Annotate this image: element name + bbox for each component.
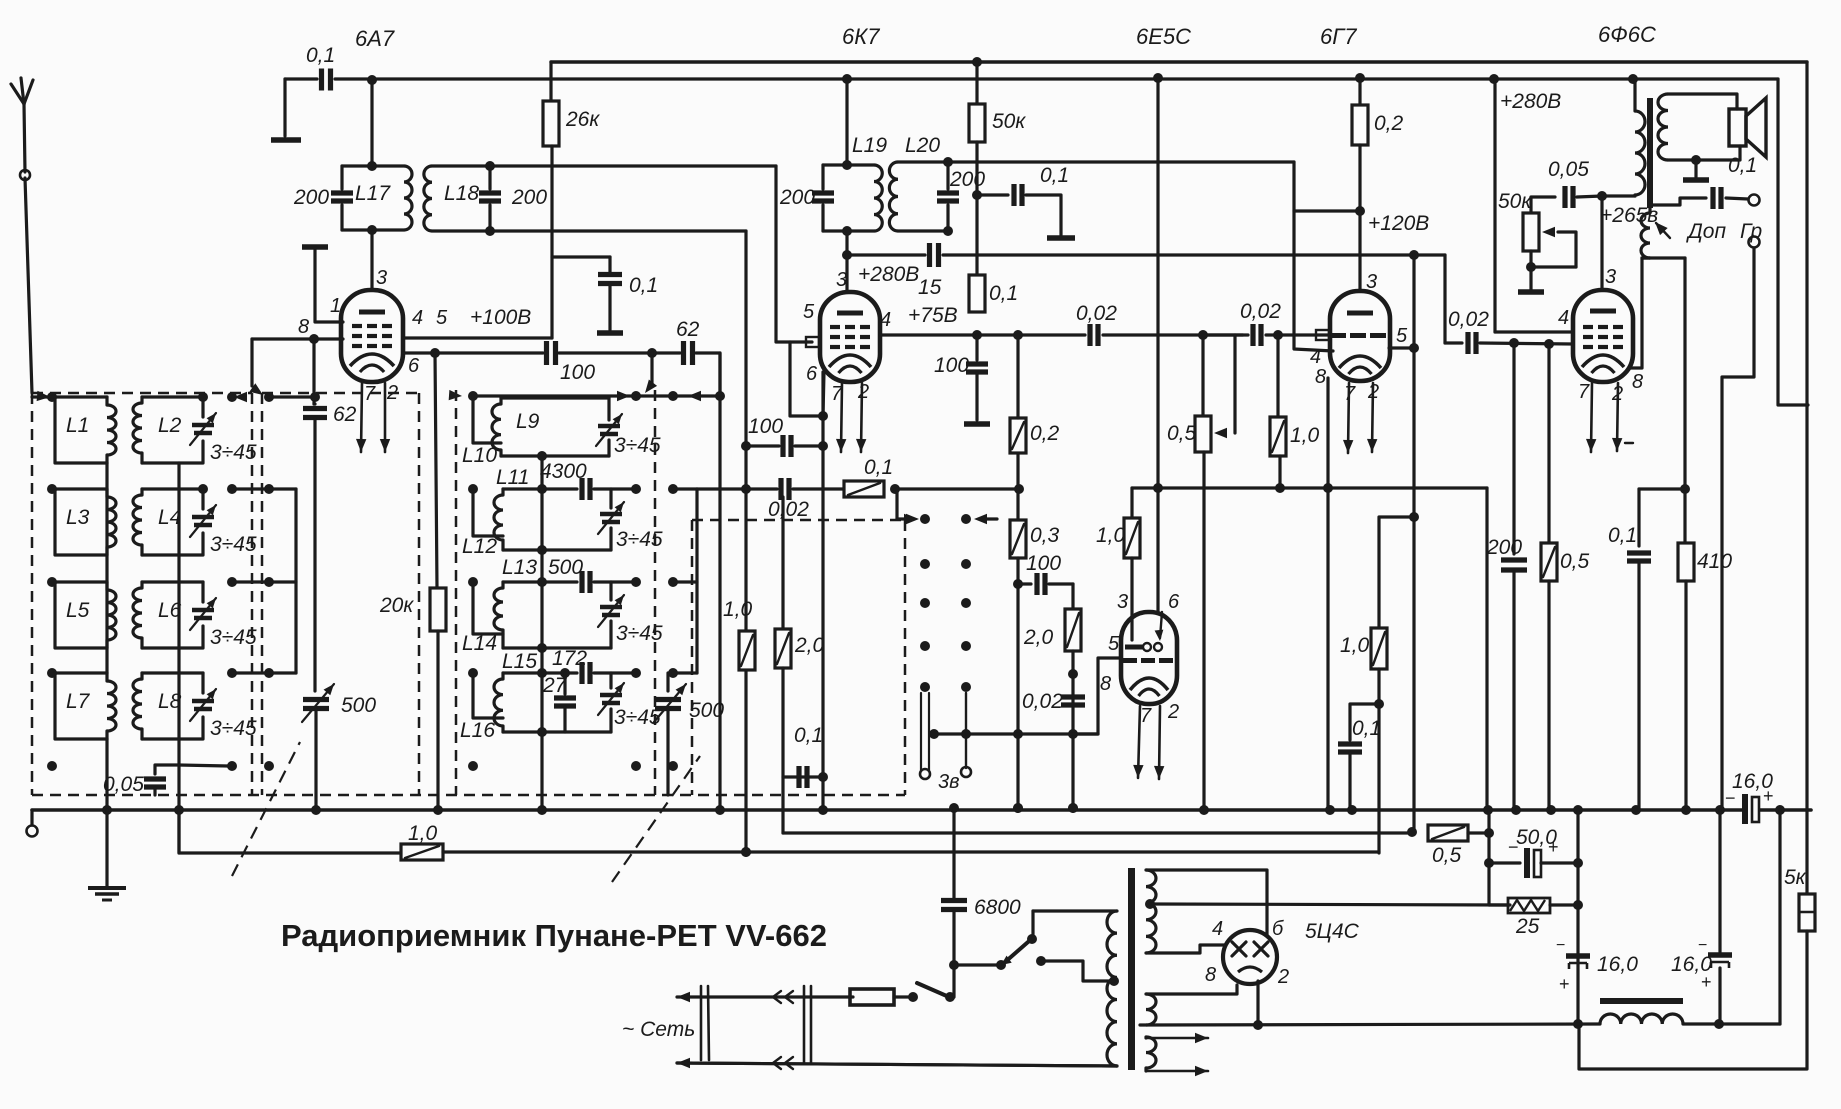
- svg-text:3÷45: 3÷45: [210, 717, 257, 740]
- svg-text:3: 3: [1117, 591, 1128, 613]
- svg-text:+100В: +100В: [470, 306, 531, 329]
- switch contacts row5 left: [47, 761, 57, 771]
- wire osc grid drop: [650, 353, 653, 384]
- wire: +280V top bus: [551, 60, 1807, 63]
- wire: right coil column link: [177, 463, 180, 765]
- wire bracket to AVC line: [697, 487, 746, 490]
- svg-text:0,02: 0,02: [1076, 302, 1117, 325]
- svg-text:6Е5С: 6Е5С: [1136, 24, 1191, 49]
- ground bar speaker: [1694, 160, 1697, 177]
- wire pin6 junction down (osc grid leak): [435, 353, 437, 588]
- additional speaker winding: [1641, 213, 1650, 258]
- wire 62 cap to L9 column: [696, 353, 720, 395]
- svg-text:0,05: 0,05: [103, 773, 144, 796]
- svg-text:0,02: 0,02: [768, 498, 809, 521]
- svg-text:500: 500: [689, 699, 724, 722]
- inductor L5: [55, 580, 107, 583]
- wire row1 corner down to bus: [718, 353, 721, 810]
- capacitor 100 6E5C grid: [1018, 582, 1031, 585]
- heater arrows 6K7: [841, 383, 842, 452]
- resistor 25 wirewound: [1508, 898, 1550, 913]
- svg-text:4: 4: [1310, 346, 1321, 368]
- resistor 1.0 middle: [739, 631, 755, 670]
- switch contacts row4 left: [47, 668, 57, 678]
- inductor L17: [342, 164, 404, 167]
- svg-text:100: 100: [934, 354, 969, 377]
- dashed box 4: switch section: [691, 520, 694, 795]
- svg-text:L16: L16: [460, 719, 495, 742]
- rectifier filament winding: [1146, 994, 1156, 1025]
- wire 0.5 pot to bus: [1202, 452, 1205, 810]
- svg-text:0,02: 0,02: [1448, 308, 1489, 331]
- wire 2.0 chain: [1071, 584, 1074, 609]
- inductor L2 with trimmer 3-45: [142, 395, 203, 398]
- svg-text:0,1: 0,1: [1352, 717, 1381, 740]
- svg-text:L14: L14: [462, 632, 497, 655]
- right border bottom: [1579, 931, 1807, 1069]
- tube 6A7: [341, 290, 403, 382]
- bracket right switch common: [673, 487, 697, 490]
- wire pin3 6F6C anode: [1600, 196, 1603, 290]
- svg-text:0,2: 0,2: [1374, 112, 1404, 135]
- svg-text:0,5: 0,5: [1167, 422, 1197, 445]
- svg-text:50к: 50к: [992, 110, 1026, 133]
- wire 20k to bus: [436, 631, 439, 810]
- resistor 1.0 6E5C: [1124, 518, 1140, 558]
- svg-text:−: −: [1698, 937, 1707, 954]
- svg-text:L18: L18: [444, 182, 479, 205]
- capacitor 100 cathode 6K7: [975, 335, 978, 360]
- svg-text:0,02: 0,02: [1022, 690, 1063, 713]
- wire 50k down: [975, 142, 978, 275]
- HV top lead to rectifier: [1146, 870, 1267, 936]
- resistor 5k: [1799, 894, 1815, 931]
- resistor 26k: [549, 62, 552, 101]
- svg-text:+280В: +280В: [858, 263, 919, 286]
- wire pin6 output: [403, 351, 543, 354]
- svg-text:L3: L3: [66, 506, 90, 529]
- svg-text:3: 3: [1605, 266, 1616, 288]
- wire to 0.5 pot corner: [1198, 330, 1208, 340]
- svg-text:+120В: +120В: [1368, 212, 1429, 235]
- wire 62 cap to variable 500: [313, 418, 316, 691]
- wire L19 bottom to 6K7 anode: [845, 231, 848, 255]
- primary bottom lead: [677, 1063, 1117, 1066]
- wire branch to 0.1 decoupling cap: [552, 255, 610, 258]
- wire pin4 6F6C: [1495, 330, 1573, 333]
- wire L9 common column: [540, 456, 543, 810]
- primary tap lead: [1109, 976, 1119, 986]
- svg-text:1: 1: [330, 295, 341, 317]
- svg-text:0,1: 0,1: [989, 282, 1018, 305]
- svg-text:6: 6: [1168, 591, 1180, 613]
- svg-text:+280В: +280В: [1500, 90, 1561, 113]
- svg-text:200: 200: [1486, 536, 1522, 559]
- svg-text:5: 5: [1396, 325, 1408, 347]
- svg-text:+: +: [1559, 974, 1570, 994]
- svg-text:0,05: 0,05: [1548, 158, 1589, 181]
- svg-text:3÷45: 3÷45: [210, 533, 257, 556]
- svg-text:50,0: 50,0: [1516, 826, 1557, 849]
- wire pin8 6G7 down: [1326, 378, 1329, 809]
- capacitor 200 output: [1501, 557, 1527, 562]
- variable capacitor 500 gang 2: [666, 673, 669, 691]
- svg-text:−: −: [1556, 937, 1565, 954]
- capacitor 62 coupling: [681, 341, 686, 365]
- tube 6F6C: [1573, 290, 1633, 382]
- wire: left coil column link: [105, 463, 108, 673]
- svg-text:26к: 26к: [565, 108, 600, 131]
- heater arrows 6F6C: [1591, 383, 1592, 452]
- wire 0.2 column top: [1013, 330, 1023, 340]
- tube 5Ts4S: [1223, 930, 1277, 984]
- svg-text:100: 100: [560, 361, 595, 384]
- svg-text:L19: L19: [852, 134, 887, 157]
- inductor L3: [55, 487, 107, 490]
- inductor L6 with trimmer 3-45: [142, 580, 203, 583]
- wire 0.1 res to 0.2 column: [895, 487, 1019, 490]
- terminal circles Dop Gr: [1749, 195, 1760, 206]
- wire +100V from pins 4,5: [403, 336, 552, 339]
- svg-text:0,5: 0,5: [1560, 550, 1590, 573]
- inductor L8 with trimmer 3-45: [142, 671, 203, 674]
- capacitor 0.1 bottom middle: [783, 775, 823, 778]
- inductor L18: [432, 164, 490, 167]
- capacitor 0.1 cathode bypass: [1350, 704, 1379, 740]
- mains lower wire: [677, 1058, 690, 1068]
- ground symbol bottom left: [105, 810, 108, 886]
- wire to 62 cap: [559, 351, 680, 354]
- wire switch row 734: [934, 732, 1098, 735]
- wire down to switch contact: [895, 489, 898, 519]
- resistor 0.2 6E5C anode chain: [1014, 484, 1024, 494]
- wire pin8 6E5C: [1073, 658, 1121, 734]
- svg-text:0,5: 0,5: [1432, 844, 1462, 867]
- wire to 1.0 resistor 6E5C: [1132, 486, 1487, 489]
- switch pole 2: [954, 963, 1001, 966]
- cathode lead 5Ts4S: [1256, 981, 1259, 1025]
- wire anode row (15pf line): [847, 253, 925, 256]
- tube 6K7: [820, 292, 880, 382]
- wire 6K7 anode: [845, 255, 848, 290]
- svg-text:25: 25: [1515, 915, 1540, 938]
- capacitor 6800: [952, 808, 955, 899]
- wire: grid tie to pin6 drop: [790, 342, 823, 416]
- heater arrows 6G7: [1348, 383, 1349, 453]
- variable capacitor 500 tuning gang 1: [303, 697, 329, 702]
- switch shaft lines to 3V lamp: [920, 693, 922, 770]
- capacitor 200 in L17: [331, 190, 353, 195]
- resistor 0.5 detector: [1428, 825, 1468, 841]
- svg-text:3: 3: [376, 267, 387, 289]
- capacitor 100 after 6A7: [544, 341, 549, 365]
- wire antenna row1: [32, 395, 55, 398]
- plug connector bars: [700, 986, 703, 1060]
- capacitor 500 series: [542, 580, 577, 583]
- resistor 1.0 6G7 cathode: [1371, 628, 1387, 669]
- svg-text:62: 62: [676, 318, 700, 341]
- dashed switch shaft diagonal right: [612, 756, 700, 882]
- resistor 1.0 6G7 grid leak: [1276, 335, 1279, 417]
- svg-text:0,3: 0,3: [1030, 524, 1060, 547]
- svg-text:3÷45: 3÷45: [210, 441, 257, 464]
- switch contacts row3 left: [47, 577, 57, 587]
- svg-text:0,1: 0,1: [794, 724, 823, 747]
- capacitor 0.02 AVC: [746, 487, 777, 490]
- wire switch to primary: [1031, 911, 1034, 939]
- capacitor 0.1 antenna input: [319, 69, 324, 91]
- switch riser: [952, 965, 955, 997]
- svg-text:~ Сеть: ~ Сеть: [622, 1018, 695, 1041]
- svg-text:7: 7: [1578, 381, 1590, 403]
- wire 0.5 res drop: [1547, 344, 1550, 543]
- svg-text:L20: L20: [905, 134, 940, 157]
- separable chevrons lower: [773, 1057, 781, 1069]
- wire 1578 column: [1576, 810, 1579, 1024]
- inductor L1: [55, 395, 107, 398]
- inductor L20: [898, 160, 948, 163]
- wire: L8 bottom through 0.05 node to bus: [177, 765, 180, 853]
- resistor 2.0: [781, 497, 784, 629]
- svg-text:62: 62: [333, 403, 357, 426]
- wire pin8 to band switch: [252, 337, 343, 340]
- svg-text:3: 3: [836, 269, 847, 291]
- heater arrows 6E5C: [1138, 706, 1140, 778]
- capacitor 0.1 detector: [977, 193, 1008, 196]
- trimmer L15: [609, 673, 612, 688]
- svg-text:L7: L7: [66, 690, 91, 713]
- svg-text:200: 200: [779, 186, 815, 209]
- wire 200 cap drop: [1512, 343, 1515, 554]
- tube 6G7: [1330, 291, 1390, 381]
- svg-text:4: 4: [412, 307, 423, 329]
- detector line lower: [783, 831, 1412, 834]
- wire: L7 bottom to ground bus: [105, 739, 108, 810]
- resistor 20k: [430, 588, 446, 631]
- wire L20 top to 6G7 screen feed: [948, 160, 1294, 163]
- svg-text:100: 100: [1026, 552, 1061, 575]
- svg-text:1,0: 1,0: [1340, 634, 1370, 657]
- bus junction dots: [102, 805, 112, 815]
- svg-text:5: 5: [436, 307, 448, 329]
- wire pin6 column 6K7: [821, 372, 824, 810]
- inductor L9 with tap L10: [473, 396, 501, 443]
- resistor 0.5 output: [1541, 543, 1557, 581]
- wire pin8 junction down to 62pf cap: [312, 339, 315, 404]
- ground terminal circle: [30, 810, 33, 825]
- capacitor 16.0 first filter: [1566, 953, 1590, 959]
- svg-text:20к: 20к: [379, 594, 414, 617]
- resistor 0.1 vertical: [969, 275, 985, 312]
- wire Dop winding node to 410 column: [1642, 256, 1685, 259]
- antenna: [24, 104, 25, 172]
- wire: L18 top bus to 6K7 grid: [490, 164, 776, 167]
- dashed box: antenna coils section: [32, 392, 252, 395]
- svg-text:2: 2: [1167, 701, 1179, 723]
- svg-text:6800: 6800: [974, 896, 1021, 919]
- svg-text:172: 172: [552, 647, 587, 670]
- right border: [1805, 62, 1808, 894]
- svg-text:1,0: 1,0: [723, 598, 753, 621]
- separable chevrons upper: [773, 991, 781, 1003]
- bottom wire through choke: [1140, 1024, 1600, 1025]
- svg-text:5к: 5к: [1784, 866, 1807, 889]
- inductor L4 with trimmer 3-45: [142, 487, 203, 490]
- capacitor 27 shunt: [563, 673, 566, 694]
- power transformer primary: [1107, 911, 1117, 1066]
- svg-text:5: 5: [1108, 633, 1120, 655]
- output transformer primary: [1633, 79, 1636, 111]
- resistor 0.1 horizontal: [844, 481, 884, 497]
- svg-text:6К7: 6К7: [842, 24, 880, 49]
- wire AVC junction middle: [741, 847, 751, 857]
- svg-text:500: 500: [548, 556, 583, 579]
- svg-text:б: б: [1272, 918, 1284, 940]
- capacitor 200 in L20: [937, 190, 959, 195]
- svg-text:8: 8: [1100, 673, 1111, 695]
- wire lamp row to bus: [932, 732, 935, 735]
- wire: 0.05 node to switch contact: [179, 765, 228, 766]
- bracket: left switch common: [294, 489, 297, 673]
- svg-text:4: 4: [1212, 918, 1223, 940]
- wire pin8 to output transformer: [1629, 258, 1642, 368]
- svg-text:L15: L15: [502, 650, 537, 673]
- wire L18 bottom down the middle: [744, 231, 747, 853]
- svg-text:L1: L1: [66, 414, 89, 437]
- wire winding to pin8 column: [1642, 256, 1650, 259]
- capacitor 200 in L19: [812, 190, 834, 195]
- grid connector box 6G7: [1316, 330, 1329, 340]
- wire 26k down to +100V bus: [550, 146, 553, 338]
- svg-text:8: 8: [1315, 366, 1326, 388]
- HV secondary: [1146, 870, 1156, 953]
- svg-text:3÷45: 3÷45: [616, 622, 663, 645]
- wire: L18 bottom bus: [490, 229, 746, 232]
- wire pin1 to chassis bar: [315, 250, 343, 322]
- wire: bus corner to ground at left: [283, 79, 286, 136]
- svg-text:100: 100: [748, 415, 783, 438]
- svg-text:1,0: 1,0: [408, 822, 438, 845]
- wire AVC column down: [1412, 255, 1415, 832]
- svg-text:3в: 3в: [938, 771, 960, 793]
- svg-text:15: 15: [918, 276, 942, 299]
- power transformer core: [1128, 868, 1135, 1070]
- wire variable 500 to bus: [314, 709, 317, 810]
- svg-text:2: 2: [1277, 966, 1289, 988]
- svg-text:3÷45: 3÷45: [616, 528, 663, 551]
- switch contacts row1 left: [37, 391, 50, 401]
- trimmer L13: [609, 582, 612, 600]
- svg-text:0,1: 0,1: [629, 274, 658, 297]
- capacitor 200 in L18: [479, 190, 501, 195]
- wire 1780 drop: [1778, 810, 1781, 1024]
- svg-text:0,1: 0,1: [1608, 524, 1637, 547]
- svg-text:0,1: 0,1: [1728, 154, 1757, 177]
- svg-text:7: 7: [1140, 705, 1152, 727]
- resistor 0.5 potentiometer: [1195, 416, 1211, 452]
- svg-text:3÷45: 3÷45: [210, 626, 257, 649]
- capacitor 0.02 to 6F6C grid: [1412, 253, 1415, 256]
- primary top lead: [1033, 909, 1117, 912]
- capacitor 50.0 electrolytic: [1487, 810, 1490, 905]
- svg-text:8: 8: [1205, 964, 1216, 986]
- capacitor 0.1 to chassis: [608, 257, 611, 272]
- resistor 410: [1678, 543, 1694, 581]
- capacitor 15: [927, 243, 932, 267]
- antenna terminal circle: [20, 170, 30, 180]
- dashed box 3: L9-L16 section: [455, 390, 458, 795]
- svg-text:L10: L10: [462, 444, 497, 467]
- dashed switch shaft diagonal left: [232, 742, 300, 876]
- inductor L19: [823, 163, 847, 166]
- svg-text:3÷45: 3÷45: [614, 706, 661, 729]
- svg-text:4: 4: [1558, 307, 1569, 329]
- wire 0.05 net: [1489, 74, 1499, 84]
- resistor 1.0 AVC: [401, 844, 443, 860]
- wire 0.2 to +120V node and 6G7 anode: [1358, 145, 1361, 290]
- output transformer secondary: [1658, 94, 1668, 160]
- resistor 2.0 6E5C: [1065, 609, 1081, 651]
- svg-text:0,02: 0,02: [1240, 300, 1281, 323]
- svg-text:5: 5: [803, 301, 815, 323]
- wire to output transformer primary: [1602, 194, 1635, 197]
- switch contacts middle grid: [920, 514, 930, 524]
- 6.3V heater winding: [1146, 1037, 1156, 1068]
- svg-text:0,1: 0,1: [864, 456, 893, 479]
- svg-text:6Ф6С: 6Ф6С: [1598, 22, 1656, 47]
- capacitor 0.1 to extra speaker terminal: [1650, 198, 1706, 213]
- inductor L13 with tap L14 and cap 500: [473, 582, 503, 634]
- switch contacts row2 left: [47, 484, 57, 494]
- svg-text:6Г7: 6Г7: [1320, 24, 1357, 49]
- svg-text:5Ц4С: 5Ц4С: [1305, 920, 1360, 943]
- trimmer L11: [609, 489, 612, 508]
- capacitor 62 padding: [314, 402, 315, 405]
- svg-text:Гр: Гр: [1740, 220, 1762, 243]
- wire L17 to 6A7 anode pin3: [370, 230, 373, 288]
- wire pin6 6K7 stub: [823, 372, 824, 416]
- inductor L15 with tap L16, caps 172 and 27: [473, 673, 503, 718]
- svg-text:+75В: +75В: [908, 304, 958, 327]
- wire from bus to L17: [370, 80, 373, 166]
- wire secondary to speaker: [1668, 94, 1737, 109]
- svg-text:2,0: 2,0: [1023, 626, 1054, 649]
- output transformer core: [1647, 98, 1653, 208]
- wire 6E5C feed from bus: [1153, 73, 1163, 83]
- speaker: [1729, 109, 1746, 146]
- wire 0.1 cap link: [1639, 487, 1685, 490]
- grid connector box 6K7: [806, 337, 819, 347]
- svg-text:L9: L9: [516, 410, 540, 433]
- HV centre tap: [1145, 899, 1155, 909]
- capacitor 0.02 coupling to 6E5C: [1087, 324, 1092, 346]
- svg-text:6А7: 6А7: [355, 26, 395, 51]
- svg-text:1,0: 1,0: [1290, 424, 1320, 447]
- svg-text:L12: L12: [462, 535, 497, 558]
- capacitor 0.02 6E5C grid: [1061, 694, 1085, 699]
- heater leads with arrows: [1144, 1037, 1147, 1038]
- svg-text:Радиоприемник Пунане-РЕТ VV-66: Радиоприемник Пунане-РЕТ VV-662: [281, 918, 827, 953]
- svg-text:L13: L13: [502, 556, 537, 579]
- resistor 50k volume pot: [1531, 197, 1555, 213]
- capacitor 0.05 feedback: [1562, 186, 1567, 208]
- svg-text:L5: L5: [66, 599, 90, 622]
- svg-text:4300: 4300: [540, 460, 587, 483]
- wire row1 L9 section: [449, 390, 462, 400]
- svg-text:2,0: 2,0: [794, 634, 825, 657]
- wire +75V row: [880, 333, 1085, 336]
- svg-text:0,2: 0,2: [1030, 422, 1060, 445]
